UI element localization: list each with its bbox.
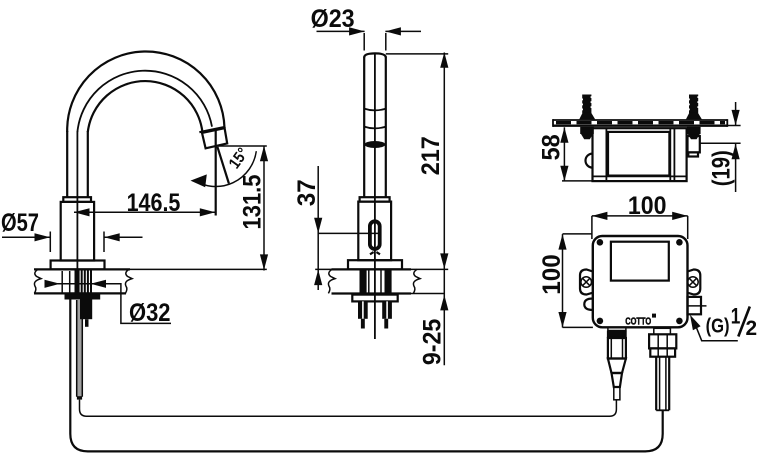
svg-text:Ø23: Ø23	[311, 5, 355, 33]
svg-text:2: 2	[746, 317, 758, 340]
svg-text:37: 37	[293, 179, 321, 206]
svg-text:131.5: 131.5	[239, 174, 267, 229]
svg-text:COTTO: COTTO	[625, 317, 651, 328]
svg-text:100: 100	[628, 192, 667, 220]
svg-text:58: 58	[538, 134, 566, 160]
svg-text:Ø57: Ø57	[1, 209, 39, 237]
svg-text:Ø32: Ø32	[129, 299, 171, 327]
svg-text:(G): (G)	[706, 316, 730, 338]
svg-text:146.5: 146.5	[127, 189, 181, 217]
svg-text:217: 217	[417, 136, 445, 175]
svg-text:(19): (19)	[708, 150, 736, 186]
svg-text:100: 100	[538, 254, 566, 295]
svg-text:1: 1	[731, 303, 741, 328]
svg-text:9-25: 9-25	[419, 319, 447, 366]
